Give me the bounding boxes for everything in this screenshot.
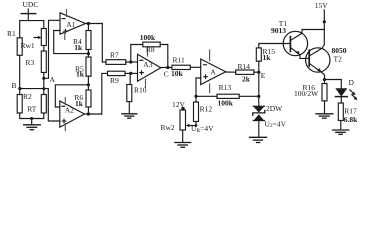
ground bridge bbox=[24, 125, 41, 130]
svg-text:1k: 1k bbox=[76, 69, 85, 78]
svg-text:B: B bbox=[12, 81, 17, 90]
wire UDC stub bbox=[27, 9, 29, 14]
wiper wire Rw2 bbox=[186, 124, 214, 134]
ground R17 bbox=[333, 130, 349, 134]
svg-text:A: A bbox=[50, 75, 56, 84]
svg-text:9013: 9013 bbox=[271, 26, 286, 35]
svg-text:2k: 2k bbox=[242, 74, 251, 83]
transistor T2 bbox=[306, 45, 347, 74]
resistor R17 bbox=[338, 103, 358, 124]
svg-text:100k: 100k bbox=[140, 33, 156, 42]
node emitter junction bbox=[323, 78, 326, 81]
op-amp A bbox=[201, 59, 226, 85]
wire Rw1 to R3 bbox=[43, 46, 45, 52]
ground zener bbox=[250, 137, 267, 142]
thermistor RT bbox=[27, 95, 46, 114]
LED D bbox=[335, 78, 357, 100]
svg-text:2DW: 2DW bbox=[266, 104, 283, 113]
wire A2 feedback to inverting input bbox=[55, 85, 88, 107]
A1 supply stub top bbox=[66, 10, 68, 17]
node A3 minus bbox=[129, 60, 132, 63]
node B bbox=[12, 81, 22, 90]
A3 supply stub top bbox=[147, 47, 149, 56]
wire LED to R17 bbox=[340, 97, 342, 103]
resistor R6 bbox=[74, 90, 91, 108]
svg-text:10k: 10k bbox=[171, 69, 184, 78]
resistor R10 bbox=[127, 85, 147, 102]
node zener column bbox=[257, 95, 260, 98]
ground Rw2 bbox=[175, 143, 191, 148]
wire R8 feedback right bbox=[160, 45, 168, 68]
A3 supply stub bottom bbox=[145, 80, 147, 88]
svg-text:R1: R1 bbox=[7, 29, 16, 38]
resistor R16 bbox=[294, 83, 327, 101]
wire A plus lead bbox=[196, 78, 201, 102]
wire A1 out to R4 bbox=[87, 24, 89, 31]
wire R6 to A2 out bbox=[87, 107, 89, 114]
wire A3 output bbox=[161, 67, 172, 69]
resistor R7 bbox=[106, 51, 126, 65]
svg-text:T2: T2 bbox=[334, 54, 343, 63]
transistor T1 bbox=[271, 19, 308, 56]
potentiometer Rw1 bbox=[21, 29, 47, 51]
svg-text:A1: A1 bbox=[66, 20, 75, 29]
wire R14 to E bbox=[254, 71, 259, 73]
op-amp A3 bbox=[138, 54, 161, 81]
wire R3 to RT bbox=[43, 73, 45, 95]
potentiometer Rw2 bbox=[161, 110, 186, 132]
node R4/R5 bbox=[87, 52, 90, 55]
svg-text:A3: A3 bbox=[143, 60, 152, 69]
wire R13 right lead bbox=[239, 95, 259, 97]
node A3 plus bbox=[129, 72, 132, 75]
zener 2DW U2 bbox=[253, 104, 287, 129]
wire 12V stub bbox=[182, 108, 184, 110]
wire A1 out to R7 bbox=[102, 24, 106, 63]
svg-text:A: A bbox=[210, 67, 216, 76]
op-amp A1 bbox=[60, 13, 86, 34]
svg-text:R12: R12 bbox=[200, 104, 213, 113]
node bridge ground bbox=[30, 117, 33, 120]
wire R7 to A3 bbox=[126, 61, 138, 63]
wire top rail bbox=[20, 21, 44, 38]
supply 12V label bbox=[172, 100, 186, 109]
node A2 out bbox=[87, 112, 90, 115]
wire R12 bottom bbox=[195, 122, 197, 126]
wire T2 emitter down bbox=[323, 73, 325, 83]
resistor R15 bbox=[256, 47, 275, 62]
supply 15V bbox=[315, 1, 329, 10]
ground R16 bbox=[316, 114, 333, 118]
svg-text:15V: 15V bbox=[315, 1, 329, 10]
wire 15V rail bbox=[323, 10, 325, 45]
wire A1 output bbox=[86, 23, 103, 25]
wire A output bbox=[226, 71, 236, 73]
wire emitter to LED bbox=[325, 79, 342, 81]
svg-text:UDC: UDC bbox=[23, 0, 39, 9]
svg-text:R3: R3 bbox=[26, 58, 35, 67]
wire R10 to ground bbox=[128, 102, 130, 114]
svg-text:D: D bbox=[349, 78, 355, 87]
resistor R5 bbox=[75, 57, 91, 78]
wire UDC down to rail bbox=[27, 14, 29, 21]
wire R8 feedback left bbox=[131, 45, 143, 63]
wire A2 output bbox=[85, 113, 102, 115]
A supply stub bottom bbox=[209, 84, 211, 93]
node A bbox=[42, 75, 55, 84]
svg-text:Rw2: Rw2 bbox=[161, 123, 175, 132]
svg-text:R8: R8 bbox=[146, 45, 155, 54]
svg-text:100/2W: 100/2W bbox=[294, 89, 319, 98]
svg-text:Rw1: Rw1 bbox=[21, 41, 35, 50]
svg-text:R2: R2 bbox=[23, 92, 32, 101]
resistor R11 bbox=[171, 55, 190, 78]
wire T1 collector to rail bbox=[302, 30, 324, 34]
resistor R8 bbox=[140, 33, 160, 54]
svg-text:R9: R9 bbox=[110, 76, 119, 85]
node R5/R6 bbox=[87, 83, 90, 86]
wire Rw2 to ground bbox=[182, 130, 184, 142]
resistor R2 bbox=[17, 92, 32, 113]
svg-text:100k: 100k bbox=[218, 98, 234, 107]
svg-text:R14: R14 bbox=[238, 62, 251, 71]
node A1 out bbox=[87, 22, 90, 25]
resistor R14 bbox=[236, 62, 254, 83]
svg-text:U2=4V: U2=4V bbox=[265, 119, 287, 129]
ground R10 bbox=[122, 114, 137, 118]
svg-text:C: C bbox=[164, 70, 169, 79]
node C bbox=[164, 66, 170, 79]
svg-text:UR=4V: UR=4V bbox=[191, 124, 214, 134]
wire R9 to A3 bbox=[125, 72, 138, 74]
resistor R12 bbox=[194, 102, 213, 122]
supply UDC label bbox=[23, 0, 39, 9]
wire R15 to T1 base bbox=[259, 44, 291, 48]
A2 supply stub top bbox=[64, 98, 66, 105]
resistor R13 bbox=[217, 83, 239, 107]
wire R17 to ground bbox=[340, 121, 342, 130]
svg-text:R13: R13 bbox=[219, 83, 232, 92]
A2 supply stub bottom bbox=[64, 124, 66, 131]
wire R13 left lead bbox=[196, 95, 217, 97]
wire R1 to B bbox=[19, 55, 21, 94]
wire R4-R5 bbox=[87, 50, 89, 58]
wire A2 out to R9 bbox=[102, 73, 108, 114]
svg-text:E: E bbox=[261, 71, 266, 80]
wire R10 riser bbox=[129, 73, 131, 84]
op-amp A2 bbox=[60, 101, 85, 127]
svg-text:R10: R10 bbox=[134, 86, 147, 95]
wire R16 to ground bbox=[324, 101, 326, 114]
resistor R3 bbox=[26, 51, 47, 73]
A1 supply stub bottom bbox=[64, 31, 66, 40]
node E bbox=[257, 71, 266, 80]
svg-text:R7: R7 bbox=[110, 51, 119, 60]
resistor R4 bbox=[73, 31, 91, 53]
svg-text:A2: A2 bbox=[65, 105, 74, 114]
wire R5-R6 bbox=[87, 76, 89, 90]
wire E to R15 bbox=[258, 61, 260, 72]
wire E column down bbox=[258, 72, 260, 106]
svg-text:RT: RT bbox=[27, 104, 37, 113]
wire zener to ground bbox=[258, 121, 260, 137]
svg-text:1k: 1k bbox=[263, 53, 272, 62]
svg-text:1k: 1k bbox=[75, 99, 84, 108]
node 15V bbox=[323, 20, 326, 23]
wire R11 to A bbox=[190, 66, 200, 68]
svg-text:1k: 1k bbox=[74, 43, 83, 52]
resistor R1 bbox=[7, 29, 22, 55]
resistor R9 bbox=[108, 71, 126, 85]
svg-text:R11: R11 bbox=[173, 55, 185, 64]
wire node A to A1 inverting input bbox=[44, 20, 60, 78]
wire A1 feedback to plus input bbox=[54, 31, 89, 54]
junction dot on A column bbox=[42, 87, 45, 90]
svg-text:6.8k: 6.8k bbox=[344, 115, 358, 124]
wire ground stub bridge bbox=[31, 119, 33, 125]
wire bridge bottom bbox=[20, 113, 44, 119]
A supply stub top bbox=[209, 50, 211, 61]
wire T1 emitter to T2 base bbox=[300, 55, 309, 59]
node R13 tap bbox=[194, 95, 197, 98]
UDC terminal bar bbox=[21, 13, 36, 15]
wire node B branch to A2 plus input bbox=[20, 89, 60, 121]
